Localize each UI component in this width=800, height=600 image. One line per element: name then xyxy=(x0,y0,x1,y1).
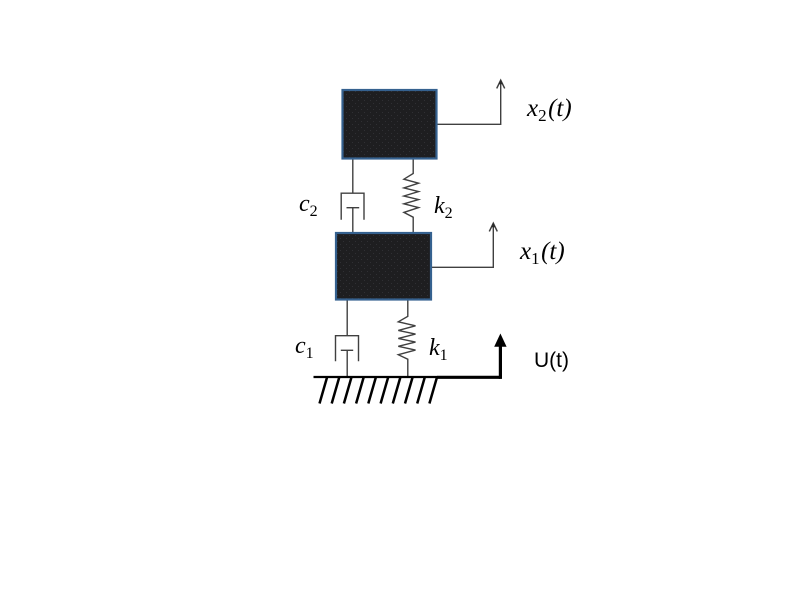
svg-text:c1: c1 xyxy=(295,333,314,362)
svg-text:k1: k1 xyxy=(429,335,448,364)
svg-text:c2: c2 xyxy=(299,191,318,220)
svg-text:x2(t): x2(t) xyxy=(526,95,572,125)
svg-text:x1(t): x1(t) xyxy=(519,238,565,268)
svg-text:U(t): U(t) xyxy=(534,349,569,372)
svg-text:k2: k2 xyxy=(434,193,453,222)
